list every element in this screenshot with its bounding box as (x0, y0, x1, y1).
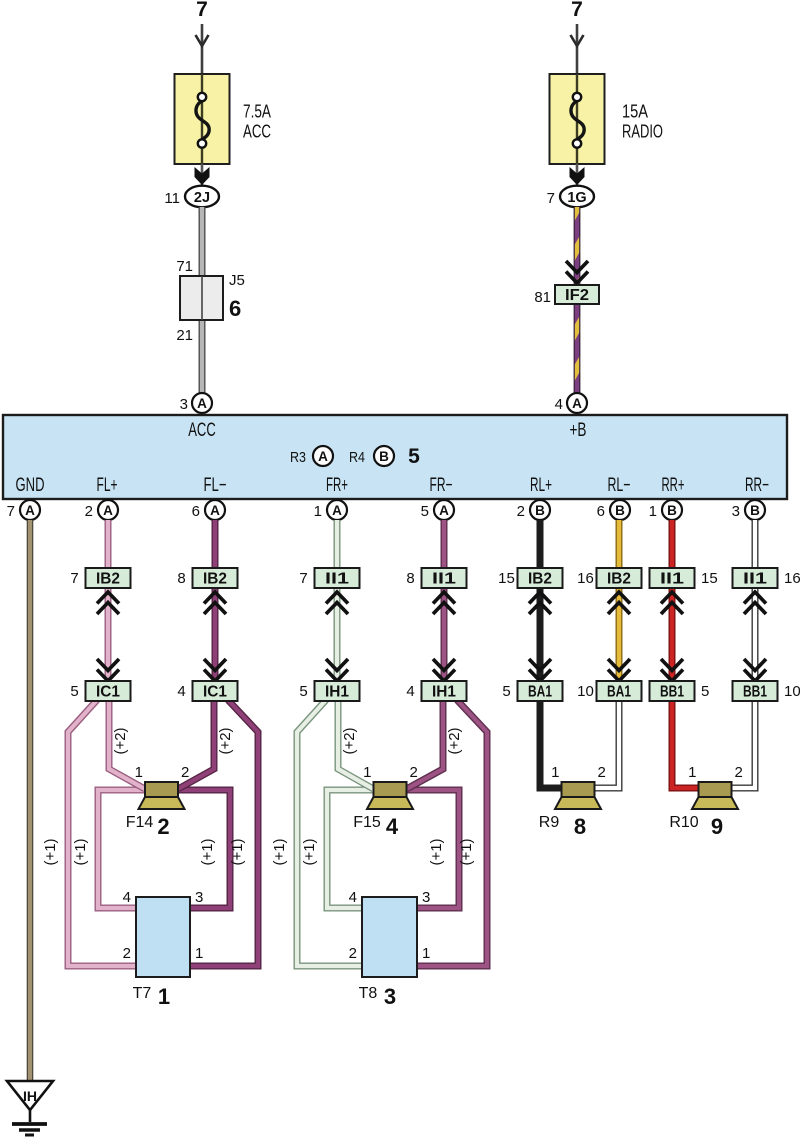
svg-text:(+1): (+1) (271, 838, 288, 865)
svg-text:5: 5 (701, 683, 709, 700)
svg-text:R3: R3 (290, 449, 306, 466)
svg-text:4: 4 (177, 683, 185, 700)
svg-text:ACC: ACC (243, 122, 271, 142)
svg-text:3: 3 (732, 503, 740, 520)
svg-text:FR+: FR+ (326, 474, 348, 496)
svg-text:7: 7 (571, 0, 583, 21)
svg-text:4: 4 (406, 683, 414, 700)
svg-text:5: 5 (408, 445, 420, 468)
svg-text:IH1: IH1 (325, 684, 349, 701)
svg-text:II1: II1 (743, 571, 767, 588)
svg-text:IC1: IC1 (96, 684, 120, 701)
svg-text:(+1): (+1) (72, 838, 89, 865)
svg-text:B: B (667, 503, 677, 518)
svg-text:7: 7 (70, 570, 78, 587)
svg-text:5: 5 (70, 683, 78, 700)
svg-text:FR−: FR− (430, 474, 453, 496)
svg-text:ACC: ACC (188, 419, 216, 441)
svg-text:1: 1 (688, 764, 696, 781)
svg-text:T8: T8 (359, 985, 378, 1002)
svg-text:B: B (615, 503, 625, 518)
svg-text:RL−: RL− (608, 474, 631, 496)
svg-text:(+2): (+2) (446, 727, 463, 754)
svg-text:BB1: BB1 (743, 684, 767, 701)
svg-text:2: 2 (85, 503, 93, 520)
svg-text:FL−: FL− (204, 474, 227, 496)
svg-text:1: 1 (363, 764, 371, 781)
svg-text:6: 6 (229, 296, 241, 321)
svg-text:2: 2 (735, 764, 743, 781)
svg-text:FL+: FL+ (97, 474, 118, 496)
svg-text:(+1): (+1) (229, 838, 246, 865)
svg-text:15A: 15A (622, 102, 648, 122)
svg-text:A: A (318, 449, 328, 464)
svg-text:1: 1 (314, 503, 322, 520)
svg-text:F14: F14 (126, 814, 154, 831)
svg-text:II1: II1 (432, 571, 456, 588)
svg-text:1: 1 (422, 945, 430, 962)
svg-text:(+2): (+2) (341, 727, 358, 754)
svg-text:7: 7 (299, 570, 307, 587)
svg-text:4: 4 (123, 889, 131, 906)
svg-text:2: 2 (517, 503, 525, 520)
svg-text:16: 16 (784, 570, 800, 587)
svg-text:R9: R9 (539, 814, 560, 831)
svg-text:II1: II1 (660, 571, 684, 588)
svg-text:1: 1 (551, 764, 559, 781)
svg-text:10: 10 (784, 683, 800, 700)
svg-text:2: 2 (181, 764, 189, 781)
svg-text:(+2): (+2) (112, 727, 129, 754)
svg-text:81: 81 (534, 289, 551, 306)
svg-text:71: 71 (176, 258, 193, 275)
svg-text:4: 4 (555, 396, 563, 413)
svg-text:IC1: IC1 (203, 684, 227, 701)
svg-text:5: 5 (421, 503, 429, 520)
svg-text:1: 1 (135, 764, 143, 781)
svg-text:IH: IH (23, 1088, 37, 1104)
svg-text:1: 1 (649, 503, 657, 520)
svg-text:RL+: RL+ (530, 474, 552, 496)
svg-text:(+1): (+1) (428, 838, 445, 865)
svg-text:7: 7 (196, 0, 208, 21)
svg-text:A: A (25, 503, 35, 518)
svg-text:2: 2 (349, 945, 357, 962)
svg-text:(+1): (+1) (301, 838, 318, 865)
svg-text:B: B (379, 449, 389, 464)
svg-text:15: 15 (498, 570, 515, 587)
svg-text:2: 2 (157, 814, 169, 839)
svg-text:BA1: BA1 (528, 684, 552, 701)
svg-text:4: 4 (386, 814, 399, 839)
svg-text:16: 16 (577, 570, 594, 587)
svg-text:2J: 2J (194, 190, 210, 206)
svg-text:2: 2 (123, 945, 131, 962)
svg-text:F15: F15 (353, 814, 381, 831)
svg-text:R4: R4 (349, 449, 365, 466)
svg-text:2: 2 (598, 764, 606, 781)
svg-text:IH1: IH1 (432, 684, 456, 701)
svg-text:6: 6 (192, 503, 200, 520)
svg-text:7: 7 (7, 503, 15, 520)
svg-text:(+2): (+2) (217, 727, 234, 754)
svg-text:A: A (332, 503, 342, 518)
svg-text:A: A (103, 503, 113, 518)
svg-text:IB2: IB2 (528, 571, 552, 588)
svg-text:A: A (439, 503, 449, 518)
svg-text:3: 3 (180, 396, 188, 413)
svg-text:II1: II1 (325, 571, 349, 588)
svg-text:B: B (535, 503, 545, 518)
svg-text:8: 8 (406, 570, 414, 587)
svg-text:5: 5 (299, 683, 307, 700)
svg-text:7: 7 (547, 190, 555, 207)
svg-text:IB2: IB2 (203, 571, 227, 588)
svg-text:1: 1 (195, 945, 203, 962)
svg-text:+B: +B (570, 419, 587, 441)
svg-text:(+1): (+1) (199, 838, 216, 865)
svg-text:A: A (197, 396, 207, 411)
svg-text:3: 3 (195, 889, 203, 906)
svg-text:B: B (750, 503, 760, 518)
svg-text:GND: GND (16, 474, 45, 496)
svg-text:BB1: BB1 (660, 684, 684, 701)
svg-text:BA1: BA1 (607, 684, 631, 701)
svg-text:A: A (572, 396, 582, 411)
svg-text:5: 5 (502, 683, 510, 700)
svg-text:1: 1 (158, 984, 170, 1009)
svg-text:RADIO: RADIO (622, 122, 663, 142)
svg-text:9: 9 (711, 814, 723, 839)
svg-text:4: 4 (349, 889, 357, 906)
svg-text:7.5A: 7.5A (243, 102, 271, 122)
svg-text:A: A (210, 503, 220, 518)
svg-text:8: 8 (574, 814, 586, 839)
svg-text:6: 6 (597, 503, 605, 520)
svg-text:10: 10 (577, 683, 594, 700)
svg-text:3: 3 (384, 984, 396, 1009)
svg-text:8: 8 (177, 570, 185, 587)
svg-text:J5: J5 (229, 272, 245, 289)
svg-text:RR+: RR+ (662, 474, 685, 496)
svg-text:15: 15 (701, 570, 718, 587)
svg-text:IB2: IB2 (607, 571, 631, 588)
svg-text:RR−: RR− (745, 474, 769, 496)
svg-text:T7: T7 (133, 985, 152, 1002)
svg-text:2: 2 (410, 764, 418, 781)
svg-text:IF2: IF2 (565, 287, 589, 304)
svg-text:R10: R10 (669, 814, 698, 831)
svg-text:(+1): (+1) (458, 838, 475, 865)
svg-text:1G: 1G (567, 190, 586, 206)
svg-text:IB2: IB2 (96, 571, 120, 588)
svg-text:21: 21 (176, 327, 193, 344)
svg-text:(+1): (+1) (42, 838, 59, 865)
svg-text:11: 11 (164, 190, 180, 207)
svg-text:3: 3 (422, 889, 430, 906)
